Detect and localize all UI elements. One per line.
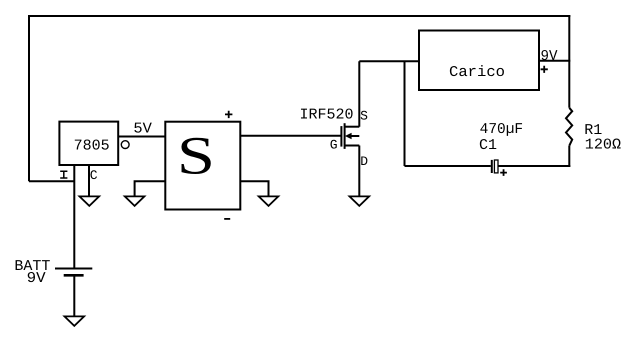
svg-text:470µF: 470µF bbox=[480, 121, 524, 138]
wire 5V output to S box bbox=[118, 136, 165, 138]
pin label O bbox=[121, 141, 129, 149]
pin label + of load bbox=[541, 66, 548, 73]
svg-text:S: S bbox=[360, 108, 368, 123]
svg-text:9V: 9V bbox=[541, 48, 558, 65]
capacitor C1 bbox=[492, 160, 507, 176]
ground below battery bbox=[65, 316, 85, 326]
wire 7805 common pin down bbox=[88, 165, 90, 196]
transistor Q1 IRF520 bbox=[341, 123, 359, 149]
load module Carico bbox=[419, 31, 539, 91]
wire right rail top bbox=[568, 15, 570, 108]
pin label + of S1 bbox=[225, 111, 232, 118]
svg-text:S: S bbox=[177, 126, 215, 186]
svg-text:IRF520: IRF520 bbox=[299, 107, 353, 124]
wire source lead up to node bbox=[358, 61, 360, 127]
wire Carico right to 9V rail bbox=[539, 60, 570, 62]
ground below 7805 common bbox=[80, 196, 100, 206]
svg-text:C: C bbox=[90, 168, 98, 183]
wire S box output to gate bbox=[240, 135, 340, 137]
svg-text:G: G bbox=[330, 138, 338, 153]
wire S box lower-right to ground bbox=[240, 181, 268, 196]
pin label - of S1 bbox=[224, 218, 230, 220]
wire node to Carico left bbox=[359, 60, 419, 62]
resistor R1 bbox=[566, 108, 572, 146]
wire top rail bbox=[28, 15, 570, 17]
svg-text:9V: 9V bbox=[27, 270, 46, 287]
svg-text:D: D bbox=[360, 154, 368, 169]
svg-text:5V: 5V bbox=[133, 120, 152, 137]
pin label I bbox=[60, 171, 67, 178]
wire S box lower-left to ground bbox=[135, 181, 166, 196]
regulator U1 7805 bbox=[59, 122, 118, 165]
svg-text:C1: C1 bbox=[479, 137, 497, 154]
wire left rail bbox=[28, 15, 30, 181]
wire bottom rail left of capacitor bbox=[405, 165, 491, 167]
wire drain lead down bbox=[358, 146, 360, 197]
switch module S1 bbox=[165, 122, 240, 210]
svg-text:Carico: Carico bbox=[449, 64, 505, 81]
wire branch down to bottom rail bbox=[404, 61, 406, 166]
ground below drain bbox=[350, 196, 370, 206]
ground below S box left bbox=[125, 196, 145, 206]
wire left rail to input bbox=[29, 180, 74, 182]
svg-text:120Ω: 120Ω bbox=[585, 137, 621, 154]
wire bottom rail right of capacitor bbox=[498, 165, 570, 167]
ground below S box right bbox=[259, 196, 279, 206]
battery BATT 9V bbox=[55, 269, 92, 317]
wire right rail below resistor bbox=[568, 146, 570, 167]
wire 7805 input pin to battery bbox=[73, 165, 75, 268]
svg-text:7805: 7805 bbox=[74, 137, 110, 154]
